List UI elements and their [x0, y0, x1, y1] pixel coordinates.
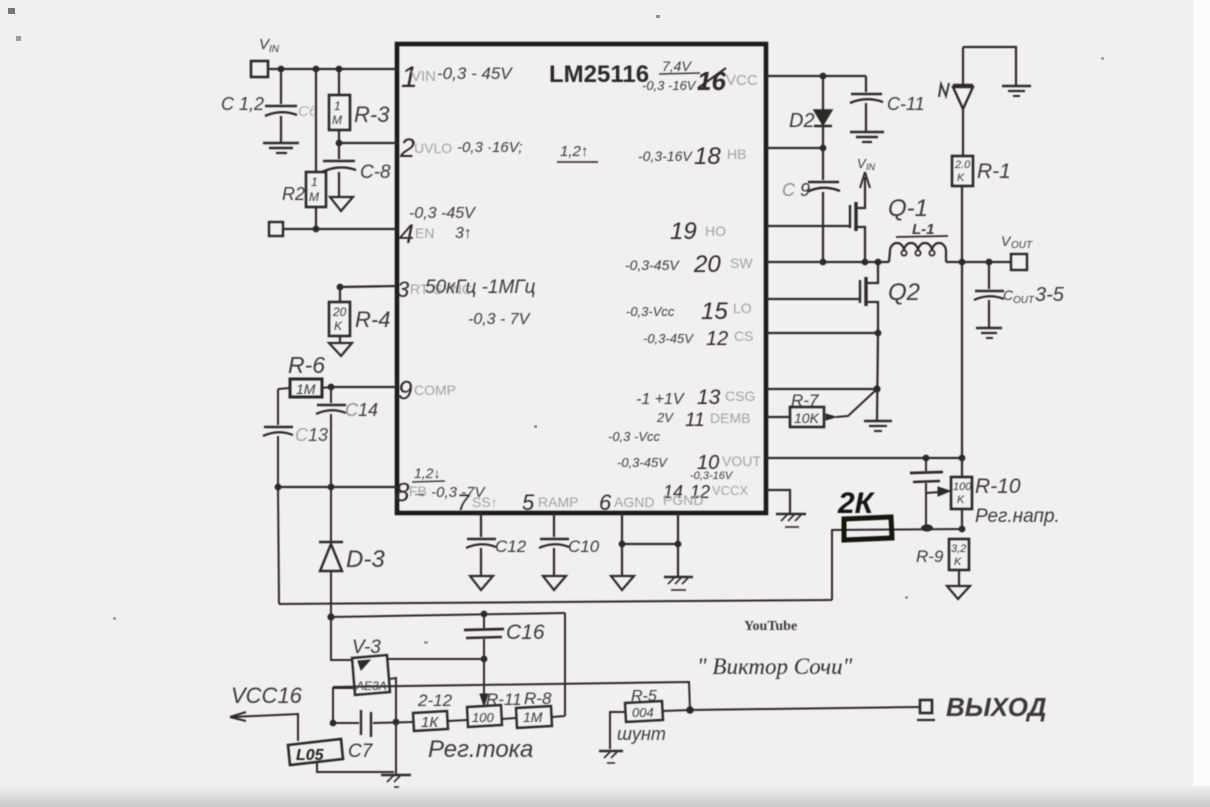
lamp L05: [288, 739, 394, 772]
resistor R-9 3.2K: [916, 539, 969, 585]
capacitor C12 on pin 7 SS: [466, 513, 527, 575]
node junction FB / C13: [275, 484, 282, 491]
svg-text:M: M: [332, 113, 342, 127]
ground arrow below C-8: [330, 197, 353, 211]
svg-text:K: K: [334, 319, 343, 333]
svg-text:C-11: C-11: [887, 94, 925, 114]
pin 8 FB label: [395, 465, 487, 507]
wire pin 8 FB: [278, 486, 397, 488]
svg-text:R-3: R-3: [354, 102, 390, 127]
capacitor C13: [263, 389, 328, 487]
svg-text:VIN: VIN: [411, 68, 436, 85]
svg-text:-0,3-Vcc: -0,3-Vcc: [626, 304, 675, 319]
wire divider right leg: [564, 613, 566, 716]
wire pin 12 CS to Q2 source: [766, 332, 878, 334]
node junction SW / C9: [820, 259, 827, 266]
potentiometer 2K bold: [837, 487, 892, 540]
node VIN arrow above Q-1: [857, 156, 876, 190]
wire opto cathode down to C7 node: [333, 688, 354, 723]
svg-text:Рег.напр.: Рег.напр.: [975, 506, 1060, 527]
svg-text:4: 4: [399, 219, 414, 249]
svg-text:UVLO: UVLO: [414, 140, 452, 156]
svg-text:-0,3 -Vcc: -0,3 -Vcc: [608, 429, 661, 444]
ground hatched below PGND: [664, 577, 693, 590]
transistor Q-1: [850, 190, 928, 262]
svg-text:1М: 1М: [296, 381, 316, 397]
wire C13 branch down to feedback bus: [278, 487, 279, 604]
node EN input terminal: [269, 222, 283, 236]
node junction on VIN rail at R-2: [313, 66, 320, 73]
IC title LM25116: [549, 61, 649, 88]
svg-text:OUT: OUT: [1011, 240, 1033, 251]
pin 7 SS label: [457, 490, 498, 515]
node junction CS / Q2 source: [875, 330, 882, 337]
svg-text:C 1,2: C 1,2: [221, 94, 264, 114]
svg-text:1К: 1К: [421, 714, 439, 731]
svg-text:VCC16: VCC16: [231, 683, 303, 708]
label Viktor Sochi: [697, 654, 853, 679]
svg-text:CS: CS: [734, 328, 753, 344]
wire opto anode from D-3 bus: [331, 617, 352, 660]
svg-text:1М: 1М: [523, 709, 543, 725]
pin 2 UVLO label: [399, 133, 598, 163]
svg-text:-0,3-45V: -0,3-45V: [617, 455, 668, 470]
node junction CSG / Q2 leg: [873, 385, 880, 392]
svg-text:-0,3 - 45V: -0,3 - 45V: [437, 64, 513, 83]
svg-text:HO: HO: [705, 223, 726, 239]
svg-text:C13: C13: [295, 425, 328, 445]
svg-text:SS↑: SS↑: [472, 494, 498, 510]
svg-text:VCC: VCC: [726, 72, 758, 89]
wire pin 20 SW rail: [766, 261, 889, 263]
svg-text:20: 20: [332, 305, 347, 319]
pin PGND label: [663, 492, 703, 508]
ground arrow below AGND: [611, 576, 634, 590]
node junction C16 / opto collector: [481, 656, 488, 663]
svg-text:OUT: OUT: [1013, 295, 1035, 306]
node junction opto cathode / C7: [330, 720, 337, 727]
svg-text:" Виктор Сочи": " Виктор Сочи": [697, 654, 853, 679]
diode D2: [789, 76, 832, 148]
node junction opto bus / C16: [481, 611, 488, 618]
pin 10 VOUT label: [617, 452, 761, 474]
svg-text:1,2↑: 1,2↑: [560, 143, 588, 160]
capacitor C1,2: [221, 69, 318, 142]
node junction D-3 / opto bus: [327, 613, 334, 620]
node junction divider cap / 2K wire: [921, 524, 933, 531]
svg-text:-0,3 -45V: -0,3 -45V: [409, 205, 476, 222]
wire pin 6 AGND down: [621, 513, 623, 575]
svg-text:1: 1: [334, 99, 341, 113]
svg-text:RAMP: RAMP: [538, 494, 578, 510]
svg-text:C6: C6: [298, 103, 318, 120]
svg-text:7: 7: [457, 490, 470, 515]
ground arrow below C12: [470, 576, 493, 590]
svg-text:D-3: D-3: [346, 546, 385, 573]
label Per.toka: [428, 736, 533, 763]
svg-text:C7: C7: [348, 741, 374, 762]
svg-text:C12: C12: [495, 537, 527, 556]
svg-text:18: 18: [694, 143, 721, 170]
node junction rail / Cout: [986, 259, 993, 266]
capacitor C9: [782, 148, 840, 262]
svg-text:20: 20: [693, 251, 721, 278]
svg-text:HB: HB: [727, 146, 746, 162]
svg-text:D2: D2: [789, 110, 815, 132]
svg-text:10K: 10K: [794, 410, 820, 426]
svg-text:Q-1: Q-1: [888, 195, 928, 222]
svg-text:R-10: R-10: [975, 475, 1021, 498]
resistor R-8 1M: [516, 689, 565, 728]
svg-text:IN: IN: [269, 44, 280, 55]
svg-text:шунт: шунт: [617, 724, 666, 744]
svg-text:-0,3-45V: -0,3-45V: [625, 257, 680, 273]
svg-text:11: 11: [685, 410, 705, 431]
svg-text:COMP: COMP: [414, 382, 456, 398]
pin 9 COMP label: [398, 375, 456, 405]
node junction shunt / output: [686, 706, 694, 714]
svg-text:19: 19: [670, 218, 697, 245]
ground arrow below C10: [543, 576, 566, 590]
node junction VCC / D2: [820, 73, 827, 80]
resistor R-4 20K: [329, 287, 390, 342]
pin 4 EN label: [399, 205, 476, 249]
wire wiper arrow into R-11: [480, 659, 488, 706]
svg-text:DEMB: DEMB: [710, 410, 750, 426]
capacitor C-8: [322, 143, 391, 196]
potentiometer R-10 100K: [951, 475, 1060, 529]
wire pin 18 HB: [766, 147, 823, 149]
potentiometer R-7 10K: [790, 389, 877, 427]
svg-text:LO: LO: [733, 300, 752, 316]
svg-text:AGND: AGND: [614, 494, 654, 510]
svg-text:15: 15: [701, 298, 728, 325]
svg-text:K: K: [957, 172, 965, 184]
node junction emitter leg / RC bus: [393, 719, 400, 726]
wire opto bus D-3 to divider: [331, 613, 565, 617]
wire pin 4 EN: [283, 228, 397, 230]
svg-text:M: M: [309, 190, 319, 204]
wire pin 15 LO to Q2 gate: [766, 298, 860, 300]
pin 11 DEMB label: [608, 410, 750, 444]
svg-text:-0,3-45V: -0,3-45V: [643, 331, 694, 346]
ground below C-11: [850, 132, 884, 142]
ground hatched below VCCX: [776, 514, 806, 527]
node junction on VIN rail at R-3: [336, 66, 343, 73]
wire 2K pot branch: [832, 529, 962, 600]
pin 1 VIN label: [401, 61, 513, 94]
svg-text:C10: C10: [568, 537, 600, 556]
pin 16 VCC label: [642, 58, 758, 96]
resistor R-1 2.0K: [952, 156, 1011, 262]
wire pin 3 RT-SYNC: [340, 286, 397, 287]
svg-text:2К: 2К: [837, 487, 876, 520]
node VCC16 arrow: [230, 683, 303, 741]
svg-text:2V: 2V: [656, 410, 674, 425]
node junction FB / C14 / D-3: [328, 484, 335, 491]
wire pin 2 UVLO: [339, 142, 397, 144]
ground below Cout: [976, 328, 1002, 338]
svg-text:C-8: C-8: [360, 162, 391, 183]
svg-text:004: 004: [632, 705, 654, 720]
pin 13 CSG label: [636, 386, 755, 409]
node junction R-3 / C-8 on pin2 wire: [336, 140, 343, 147]
ground arrow below R-9: [947, 586, 970, 599]
diode D-3: [319, 487, 385, 617]
svg-text:2.0: 2.0: [954, 159, 971, 171]
svg-text:7,4V: 7,4V: [662, 58, 692, 74]
wire SW rail after L-1 to VOUT terminal: [946, 261, 1011, 263]
wire pin 16 VCC to C-11: [766, 75, 866, 77]
inductor L-1: [889, 221, 948, 262]
capacitor across R-10: [910, 458, 943, 527]
node junction PGND tie: [675, 541, 682, 548]
resistor R-6 1M: [278, 352, 331, 397]
node junction VOUT sense / R-10: [959, 455, 966, 462]
svg-text:100: 100: [953, 481, 972, 493]
node junction VOUT sense / divider cap: [923, 455, 930, 462]
svg-text:EN: EN: [415, 225, 434, 241]
svg-text:CSG: CSG: [725, 388, 755, 404]
svg-text:-0,3 -16V: -0,3 -16V: [642, 78, 697, 93]
node junction HB / C9: [820, 145, 827, 152]
svg-text:L05: L05: [296, 747, 325, 764]
ground below C1,2: [263, 143, 299, 153]
svg-text:-1 +1V: -1 +1V: [636, 391, 685, 408]
svg-text:C 9: C 9: [782, 180, 810, 200]
svg-text:2-12: 2-12: [417, 691, 453, 710]
wire pin 19 HO to Q-1 gate: [766, 225, 850, 227]
node junction R-4 on pin3 wire: [337, 284, 344, 291]
ground hatched below shunt: [599, 751, 623, 763]
svg-text:R-6: R-6: [288, 352, 325, 378]
potentiometer R-11 100: [467, 690, 522, 727]
op-amp controller IC U1 LM25116 body: [397, 44, 766, 513]
pin 18 HB label: [638, 143, 746, 170]
svg-text:100: 100: [472, 710, 494, 725]
resistor R-5 shunt 004: [610, 688, 690, 749]
svg-text:R2: R2: [282, 184, 305, 204]
svg-text:R-1: R-1: [977, 160, 1011, 183]
svg-text:-0,3 ·16V;: -0,3 ·16V;: [457, 139, 523, 156]
node junction SW / Q2 drain: [875, 259, 882, 266]
svg-text:Рег.тока: Рег.тока: [428, 736, 533, 763]
node junction R-10 / R-9: [959, 526, 966, 533]
diode D1 top right: [939, 47, 973, 156]
svg-text:ВЫХОД: ВЫХОД: [946, 692, 1047, 722]
svg-text:1: 1: [311, 175, 318, 189]
svg-text:K: K: [957, 494, 965, 506]
svg-text:3↑: 3↑: [455, 225, 472, 242]
wire opto emitter to ground: [389, 678, 396, 774]
capacitor C10 on pin 5 RAMP: [539, 513, 600, 575]
node junction on VIN rail at C1: [278, 66, 285, 73]
node junction R-2 on EN wire: [313, 226, 320, 233]
wire pin 9 COMP: [331, 386, 397, 388]
capacitor C14: [316, 387, 378, 487]
pin 12 CS label: [643, 328, 753, 350]
svg-text:13: 13: [697, 386, 721, 409]
ground top right: [1002, 86, 1031, 96]
capacitor Cout: [974, 262, 1065, 327]
transistor Q2: [860, 262, 920, 333]
svg-text:3-5: 3-5: [1035, 284, 1065, 306]
svg-text:LM25116: LM25116: [549, 61, 649, 88]
wire R-1 leg SW to R-10: [961, 262, 963, 477]
svg-text:R-4: R-4: [355, 307, 390, 332]
svg-text:8: 8: [395, 477, 410, 507]
svg-text:YouTube: YouTube: [744, 619, 797, 634]
wire top rail to catch diode: [963, 47, 1016, 85]
svg-text:3: 3: [397, 277, 410, 302]
wire feedback bus to 2K pot: [279, 600, 832, 604]
svg-text:K: K: [954, 556, 962, 568]
svg-text:C14: C14: [345, 400, 378, 420]
svg-text:2: 2: [399, 133, 415, 163]
svg-text:12: 12: [706, 328, 728, 350]
svg-text:Q2: Q2: [888, 279, 920, 306]
pin 6 AGND label: [599, 490, 654, 515]
wire pin PGND down: [677, 513, 679, 576]
pin 5 RAMP label: [522, 490, 578, 515]
wire pin VCCX to ground: [766, 490, 790, 513]
capacitor C16: [464, 614, 545, 659]
wire Q2 source down to ground: [877, 333, 878, 420]
svg-text:6: 6: [599, 490, 612, 515]
svg-text:-0,3 - 7V: -0,3 - 7V: [468, 311, 531, 328]
wire opto collector to C16 node: [388, 658, 484, 660]
pin 3 RT-SYNC label: [397, 277, 536, 328]
wire pin 13 CSG: [766, 388, 877, 390]
pin 19 HO label: [670, 218, 726, 245]
node output terminal: [917, 692, 1047, 722]
wire pin 11 DEMB to R-7: [766, 416, 790, 418]
svg-text:C16: C16: [506, 621, 545, 644]
pin 20 SW label: [625, 251, 753, 278]
wire shunt sense from opto cathode to output node: [333, 682, 690, 710]
wire VIN rail to pin 1: [268, 68, 397, 70]
ground hatched below opto emitter: [381, 775, 411, 787]
svg-text:3,2: 3,2: [951, 543, 966, 555]
svg-text:АЕ3А: АЕ3А: [355, 679, 387, 693]
svg-text:SW: SW: [730, 255, 753, 271]
svg-text:-0,3-16V: -0,3-16V: [638, 148, 693, 164]
svg-text:IN: IN: [866, 162, 876, 172]
pin 14 12 VCCX label: [663, 470, 748, 502]
capacitor C7: [333, 710, 414, 762]
node junction AGND tie: [619, 541, 626, 548]
ground arrow below R-4: [329, 343, 352, 356]
svg-text:-0,3-16V: -0,3-16V: [690, 470, 734, 482]
svg-text:VOUT: VOUT: [722, 453, 761, 469]
node junction COMP / C14: [328, 384, 335, 391]
svg-text:PGND: PGND: [663, 492, 703, 508]
resistor R-3 1M: [329, 69, 390, 143]
svg-text:50кГц -1МГц: 50кГц -1МГц: [425, 277, 536, 298]
node VOUT output terminal: [1001, 233, 1033, 270]
resistor R-2 1M: [282, 69, 326, 229]
node junction rail / R-1 leg: [959, 259, 966, 266]
ground below Q2 leg: [864, 421, 892, 431]
svg-text:1,2↓: 1,2↓: [414, 465, 440, 481]
wire AGND to PGND tie: [622, 543, 678, 545]
pin 15 LO label: [626, 298, 752, 325]
wire output to terminal: [690, 707, 920, 710]
svg-text:VCCX: VCCX: [712, 483, 748, 498]
label YouTube: [744, 619, 797, 634]
svg-text:R-9: R-9: [916, 547, 944, 566]
capacitor C-11: [850, 76, 925, 131]
svg-text:5: 5: [522, 490, 535, 515]
resistor 1K: [413, 691, 467, 731]
svg-text:9: 9: [398, 375, 412, 405]
node VIN input terminal: [251, 36, 280, 77]
wire pin 10 VOUT sense: [766, 457, 962, 459]
node junction SW / Q-1 source: [862, 259, 869, 266]
optocoupler V-3: [352, 637, 390, 695]
wire wiper arrow into R-10: [926, 487, 950, 496]
